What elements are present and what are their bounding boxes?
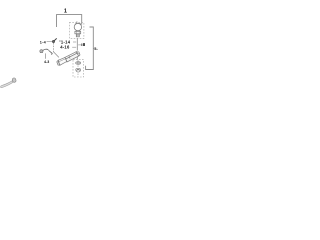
dashed box B (disc sub-assembly) xyxy=(73,60,84,77)
svg-text:4-16: 4-16 xyxy=(60,45,70,50)
lever part bottom left arm xyxy=(1,81,14,88)
dash before 1-14 xyxy=(59,40,61,42)
screw S1 xyxy=(52,38,57,42)
wire centerline bar to box B xyxy=(76,56,78,59)
wing screw part xyxy=(40,49,53,54)
svg-text:4-3: 4-3 xyxy=(44,60,49,64)
bar left sleeve block xyxy=(58,57,67,65)
svg-text:5-1: 5-1 xyxy=(94,47,98,51)
label 5-1 xyxy=(92,48,95,50)
long bar part xyxy=(57,52,80,65)
dashed centerline in box B xyxy=(77,60,79,77)
dashed box A (valve sub-assembly) xyxy=(69,23,84,39)
bar shaft front face xyxy=(65,53,78,62)
tiny part callout right of centerline xyxy=(78,44,81,46)
disc 1 xyxy=(76,62,81,65)
valve threaded stem xyxy=(76,34,79,37)
valve neck xyxy=(76,30,79,33)
wire centerline stub above valve xyxy=(76,21,78,23)
bar end hole xyxy=(77,52,79,54)
svg-text:1: 1 xyxy=(64,9,67,15)
wire leader 1-14 xyxy=(73,41,76,43)
lever head xyxy=(12,78,16,82)
wire top group bracket xyxy=(57,15,82,27)
wire diagonal leader to bar xyxy=(53,52,59,58)
bar shaft top face xyxy=(65,52,77,60)
wire right bracket 5-1 xyxy=(86,27,94,70)
wire leader 1-4 xyxy=(47,40,53,42)
valve float head xyxy=(74,23,81,30)
valve float cap xyxy=(75,23,81,26)
bar seam lines xyxy=(65,56,70,62)
bar right end boss xyxy=(76,52,80,56)
disc 2 xyxy=(76,68,81,72)
valve body xyxy=(75,31,81,34)
wire leader from screw down xyxy=(52,43,54,52)
wire leader 4-16 xyxy=(72,46,76,48)
wire leader to 4-3 xyxy=(45,53,47,58)
svg-text:1-4: 1-4 xyxy=(40,40,47,44)
wire centerline below valve xyxy=(76,38,78,50)
